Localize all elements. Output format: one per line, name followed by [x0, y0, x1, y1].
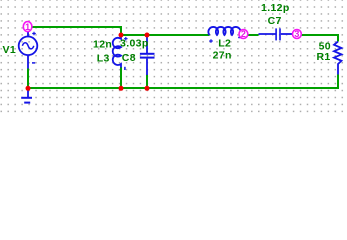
svg-text:3.03p: 3.03p [120, 38, 149, 50]
svg-text:C8: C8 [122, 52, 136, 64]
svg-text:12n: 12n [93, 38, 112, 50]
svg-text:1: 1 [25, 22, 30, 32]
svg-text:L2: L2 [218, 38, 231, 50]
svg-text:3: 3 [294, 29, 299, 39]
svg-text:L3: L3 [97, 52, 110, 64]
svg-text:R1: R1 [317, 51, 331, 63]
svg-text:2: 2 [241, 29, 246, 39]
svg-text:27n: 27n [213, 49, 232, 61]
svg-text:C7: C7 [268, 15, 282, 27]
svg-text:V1: V1 [3, 44, 17, 56]
svg-text:1.12p: 1.12p [261, 2, 290, 14]
